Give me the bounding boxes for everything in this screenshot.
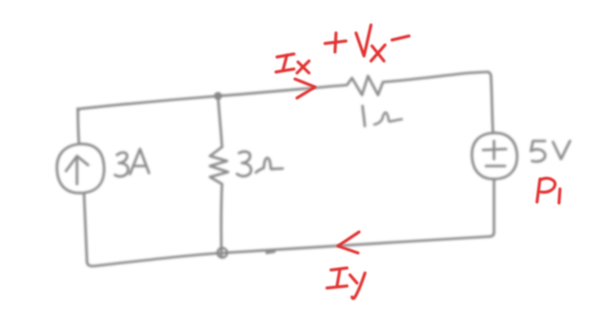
current source I1 arrow xyxy=(66,156,88,184)
wire bottom xyxy=(87,237,490,267)
label 3ohm xyxy=(237,152,251,177)
label 3A xyxy=(115,153,128,177)
label 1ohm xyxy=(363,106,365,126)
wire bottom overlap mark xyxy=(267,251,274,252)
wire middle branch top xyxy=(218,96,222,147)
label +Vx- plus xyxy=(325,33,346,52)
wire left-top vertical xyxy=(78,109,79,145)
arrow Ix xyxy=(295,79,315,98)
label minus xyxy=(392,36,409,40)
label Vx x xyxy=(371,45,385,61)
junction node top xyxy=(214,92,222,100)
voltage source V1 circle xyxy=(472,133,517,179)
wire right vertical below source xyxy=(490,179,494,237)
current source I1 circle xyxy=(57,144,104,193)
wire left vertical xyxy=(84,193,87,262)
wire top-right with resistor R2 zigzag xyxy=(218,72,493,133)
label P1 xyxy=(537,178,555,202)
wire middle branch bottom xyxy=(220,184,223,257)
label Iy xyxy=(327,268,347,288)
voltage source V1 plus-minus xyxy=(483,141,506,166)
arrow Iy xyxy=(338,232,359,253)
wire top-left horizontal xyxy=(78,96,218,111)
label Vx V xyxy=(356,25,371,56)
resistor R1 zigzag xyxy=(210,147,228,184)
label 5V xyxy=(531,141,545,162)
junction node bottom xyxy=(218,248,228,258)
label Ix xyxy=(276,54,294,72)
